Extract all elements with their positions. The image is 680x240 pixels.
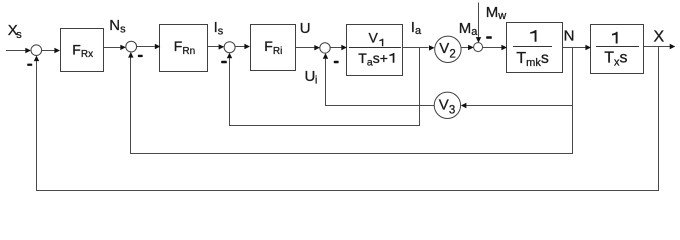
arrowhead into S5 xyxy=(468,45,474,50)
block 1/(Tmk s) xyxy=(507,23,563,73)
wire V1 block to V2 with Ia branch xyxy=(403,47,429,49)
wire feedback loop N to S2 xyxy=(131,48,573,154)
text 1 numerator Tx xyxy=(612,32,618,44)
minus sign at S5 xyxy=(486,36,492,39)
block FRn xyxy=(160,25,208,72)
wire S3 to FRi xyxy=(235,46,244,48)
block FRx xyxy=(61,29,104,72)
wire S1 to FRx xyxy=(41,50,54,52)
arrowhead outer loop into S1 bottom xyxy=(34,56,39,62)
arrowhead into V3 right xyxy=(461,103,467,108)
arrowhead into FRi xyxy=(244,44,250,49)
arrowhead Mw into S5 top xyxy=(476,37,481,43)
svg-text:N: N xyxy=(564,27,575,44)
wire V3 output to S4 xyxy=(326,59,435,106)
arrowhead V3 into S4 bottom xyxy=(323,53,328,59)
arrowhead into FRn xyxy=(155,44,161,49)
gain circle V3 xyxy=(434,92,460,118)
minus sign at S3 xyxy=(221,61,227,63)
wire S5 to Tmk block xyxy=(483,47,502,49)
summing junction S5 xyxy=(474,43,483,52)
minus sign at S1 xyxy=(27,64,32,66)
digit 1 in Ta s+1 xyxy=(389,53,394,63)
minus sign at S2 xyxy=(138,55,143,57)
arrowhead loop into S3 bottom xyxy=(227,53,232,59)
fraction bar Tx block xyxy=(596,46,639,48)
wire Mw input vertical xyxy=(478,3,480,38)
text 1 numerator Tmk xyxy=(530,30,536,42)
arrowhead into FRx xyxy=(54,48,60,53)
summing junction S2 xyxy=(126,41,137,52)
wire S4 to V1 block xyxy=(330,47,341,49)
block V1/(Ta s+1) xyxy=(347,25,403,76)
block 1/(Tx s) xyxy=(591,25,644,74)
arrowhead into S4 xyxy=(314,45,320,50)
svg-text:X: X xyxy=(654,28,665,45)
wire input Xs to summing junction S1 xyxy=(6,50,25,52)
svg-text:V: V xyxy=(369,29,379,45)
arrowhead into Tmk block xyxy=(501,45,507,50)
wire outer feedback loop X to S1 xyxy=(37,47,659,191)
subscript 1 of V1 xyxy=(379,39,383,47)
arrowhead into V2 xyxy=(429,45,435,50)
wire feedback loop Ia to S3 xyxy=(230,48,420,126)
gain circle V2 xyxy=(435,36,461,62)
wire FRx to S2 xyxy=(104,47,120,49)
arrowhead loop into S2 bottom xyxy=(128,52,133,58)
block FRi xyxy=(251,25,296,71)
arrowhead into Tx block xyxy=(585,45,591,50)
wire Tx block to output X xyxy=(643,46,670,48)
wire Tmk block to Tx block with N branch xyxy=(563,47,586,49)
wire FRi to S4 xyxy=(296,47,315,49)
arrowhead output X xyxy=(670,44,676,49)
arrowhead into S3 xyxy=(219,44,225,49)
wire FRn to S3 xyxy=(208,46,219,48)
arrowhead into V1 block xyxy=(341,45,347,50)
fraction bar Tmk block xyxy=(513,46,552,48)
arrowhead into S2 xyxy=(120,45,126,50)
summing junction S1 xyxy=(31,45,42,56)
fraction bar V1 block xyxy=(349,47,401,49)
summing junction S4 xyxy=(320,43,330,53)
wire S2 to FRn xyxy=(137,46,155,48)
minus sign at S4 xyxy=(334,61,339,64)
wire N branch to V3 input xyxy=(466,105,572,107)
arrowhead into S1 xyxy=(25,48,31,53)
wire V2 to S5 xyxy=(461,47,468,49)
svg-text:U: U xyxy=(300,20,311,37)
summing junction S3 xyxy=(224,42,235,53)
svg-text:Tas+: Tas+ xyxy=(358,50,388,69)
